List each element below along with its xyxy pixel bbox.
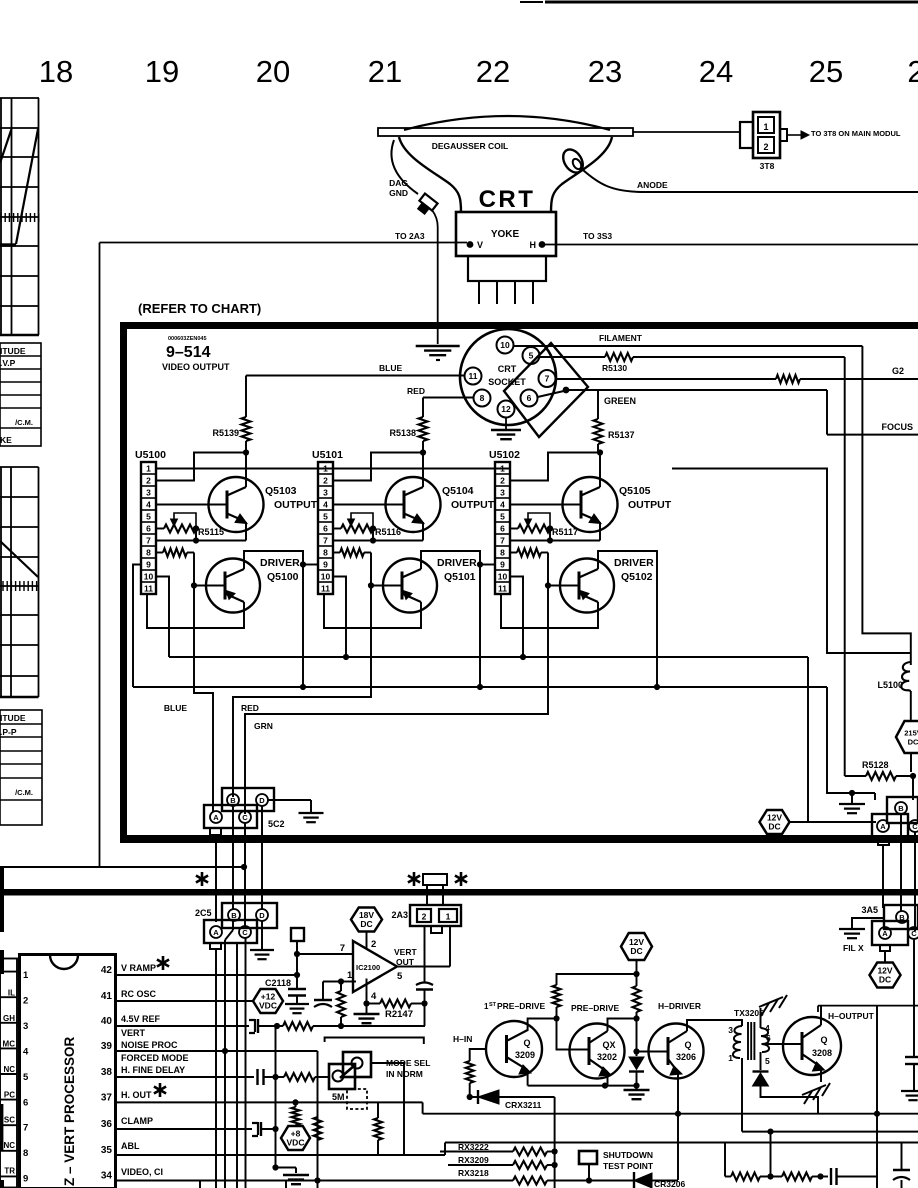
svg-text:CRT: CRT	[498, 364, 517, 374]
hexagon 12V DC module	[760, 810, 790, 834]
wire pin5 filament	[540, 356, 606, 358]
svg-text:10: 10	[498, 572, 508, 582]
wire emitter QX3202	[607, 1072, 609, 1086]
svg-text:2: 2	[146, 476, 151, 486]
switch 5M lower contact	[329, 1064, 355, 1089]
hexagon 12V DC 3A5	[870, 963, 901, 988]
svg-text:DRIVER: DRIVER	[260, 557, 300, 569]
svg-text:3A5: 3A5	[861, 905, 878, 915]
chart table 2	[0, 710, 42, 825]
svg-text:OUTPUT: OUTPUT	[628, 499, 672, 511]
svg-text:R5139: R5139	[212, 428, 239, 438]
wire pin 38 FORCED MODE	[116, 1076, 255, 1078]
svg-text:5: 5	[500, 512, 505, 522]
wire test point	[588, 1164, 590, 1181]
svg-text:GH: GH	[3, 1014, 15, 1023]
wire 3A5 B ground	[852, 918, 884, 928]
resistor R5137	[597, 390, 599, 419]
wire pin9 U5100	[133, 565, 141, 688]
right network drop	[724, 1143, 726, 1177]
svg-text:DC: DC	[768, 822, 780, 832]
wire 3A5 C down	[913, 939, 915, 1056]
svg-text:4: 4	[323, 500, 328, 510]
wire emitter Q3209	[527, 1070, 529, 1086]
wire left drop to lower section	[99, 243, 101, 868]
wire filament top drop	[862, 346, 910, 665]
svg-text:KE: KE	[0, 435, 12, 445]
video output module border	[120, 322, 918, 329]
svg-text:DAG: DAG	[389, 178, 408, 188]
wire H-OUTPUT bus drop	[876, 1006, 878, 1188]
pin tail 3A5 A	[880, 945, 890, 951]
svg-text:2: 2	[500, 476, 505, 486]
node R5138 bottom	[420, 449, 426, 455]
wire pin4 U5101	[333, 504, 404, 506]
wire collector Q3208	[820, 1006, 822, 1025]
wire R2147 down	[424, 1004, 426, 1027]
svg-text:000603ZEN045: 000603ZEN045	[168, 336, 207, 342]
svg-text:8: 8	[323, 548, 328, 558]
wire pin7 emitter U5102	[510, 540, 600, 542]
svg-text:5M: 5M	[332, 1092, 345, 1102]
pin7 wire IC2100	[297, 953, 353, 955]
asterisk 2A3 right	[460, 872, 463, 886]
svg-text:TEST POINT: TEST POINT	[603, 1161, 654, 1171]
svg-text:Q5103: Q5103	[265, 485, 297, 497]
wire 2C5 D ground	[261, 921, 263, 949]
wire left edge horizontal	[0, 866, 246, 868]
switch lever	[340, 1065, 355, 1078]
svg-text:NC: NC	[3, 1065, 15, 1074]
switch 5M upper contact	[343, 1052, 371, 1077]
svg-text:4: 4	[765, 1023, 770, 1033]
wire pin 36 CLAMP	[116, 1128, 253, 1130]
svg-text:SHUTDOWN: SHUTDOWN	[603, 1150, 653, 1160]
ground right edge	[901, 1090, 918, 1092]
svg-text:5: 5	[529, 351, 534, 361]
svg-text:5: 5	[323, 512, 328, 522]
wire TO 3S3	[545, 244, 918, 246]
resistor pin8 U5101	[333, 552, 340, 554]
ground pin 12	[505, 418, 507, 430]
node green	[563, 387, 570, 394]
svg-text:39: 39	[101, 1041, 113, 1052]
wire emitter Q5100	[147, 594, 244, 628]
svg-text:L5100: L5100	[877, 680, 903, 690]
svg-text:10: 10	[500, 340, 510, 350]
wire base drop Q5100	[193, 553, 195, 586]
svg-text:(REFER TO CHART): (REFER TO CHART)	[138, 301, 261, 316]
potentiometer R5116	[333, 528, 341, 530]
hexagon 215V DC	[896, 721, 918, 753]
svg-text:9: 9	[500, 560, 505, 570]
svg-text:7: 7	[23, 1123, 28, 1134]
wire base drop Q5102	[547, 553, 549, 586]
svg-text:SOCKET: SOCKET	[488, 377, 526, 387]
node pin7 IC2100	[294, 951, 300, 957]
svg-text:2: 2	[23, 995, 28, 1006]
rail1 drop right	[807, 657, 809, 822]
waveform 2 ticks	[3, 581, 37, 591]
rail y1142	[445, 1142, 918, 1144]
ground emitter rail	[636, 1086, 638, 1089]
svg-text:4.5V REF: 4.5V REF	[121, 1014, 161, 1024]
svg-text:5: 5	[765, 1056, 770, 1066]
resistor R2147	[380, 1000, 411, 1008]
wire pin10 U5101	[333, 577, 346, 658]
svg-text:9–514: 9–514	[166, 344, 211, 361]
svg-text:FILAMENT: FILAMENT	[599, 333, 643, 343]
svg-text:1: 1	[323, 464, 328, 474]
svg-text:215V: 215V	[904, 729, 918, 738]
pin tail 5C2 A	[210, 828, 221, 835]
rail TX return	[742, 1131, 918, 1133]
svg-text:1: 1	[146, 464, 151, 474]
svg-text:C: C	[242, 813, 248, 822]
wire emitter Q5101	[324, 594, 421, 628]
svg-text:C: C	[242, 928, 248, 937]
transistor Q3208	[783, 1017, 841, 1075]
svg-text:18: 18	[39, 54, 73, 89]
op-amp IC2100	[353, 941, 397, 992]
ground at module top	[416, 345, 460, 347]
DAG GND wire	[391, 140, 418, 194]
diode CRX3211	[470, 1096, 478, 1098]
svg-text:6: 6	[323, 524, 328, 534]
svg-text:7: 7	[146, 536, 151, 546]
svg-text:.P-P: .P-P	[0, 727, 17, 737]
svg-text:RED: RED	[241, 703, 259, 713]
wire degausser to 3T8	[633, 131, 740, 133]
yoke box	[456, 212, 556, 256]
wire pin 42 V RAMP	[116, 974, 298, 976]
svg-text:6: 6	[23, 1097, 28, 1108]
waveform grid 1	[0, 98, 39, 335]
wire green	[538, 391, 567, 398]
svg-text:TO 2A3: TO 2A3	[395, 231, 425, 241]
wire pin 35 ABL	[116, 1154, 446, 1156]
svg-text:YOKE: YOKE	[491, 229, 520, 240]
svg-text:6: 6	[766, 1033, 771, 1043]
wire base drop Q5101	[370, 553, 372, 586]
svg-text:42: 42	[101, 965, 113, 976]
svg-text:H–DRIVER: H–DRIVER	[658, 1001, 701, 1011]
svg-text:5C2: 5C2	[268, 819, 285, 829]
wire green corner down	[826, 390, 828, 435]
svg-text:10: 10	[321, 572, 331, 582]
wire collector Q3206	[687, 1020, 742, 1031]
rail pin9 bus	[133, 686, 827, 688]
transistor Q3209	[486, 1021, 542, 1077]
node base Q5102	[545, 582, 551, 588]
svg-text:B: B	[230, 796, 236, 805]
svg-text:2: 2	[422, 912, 427, 922]
svg-text:7: 7	[500, 536, 505, 546]
svg-text:H–OUTPUT: H–OUTPUT	[828, 1011, 875, 1021]
resistor R5130	[605, 353, 633, 361]
wires 2A3 to op-amp	[424, 926, 426, 967]
svg-text:7: 7	[323, 536, 328, 546]
left edge marks	[0, 866, 4, 932]
svg-text:6: 6	[527, 393, 532, 403]
transistor Q3206	[649, 1024, 704, 1079]
svg-text:H. OUT: H. OUT	[121, 1090, 152, 1100]
pin4 wire IC2100	[366, 979, 368, 1004]
svg-text:1: 1	[23, 970, 29, 981]
svg-text:PRE–DRIVE: PRE–DRIVE	[497, 1001, 546, 1011]
svg-text:2C5: 2C5	[195, 908, 212, 918]
svg-text:R5117: R5117	[552, 527, 578, 537]
svg-text:3209: 3209	[515, 1050, 535, 1060]
svg-text:R5130: R5130	[602, 363, 627, 373]
pin2 wire IC2100	[366, 932, 368, 949]
wire top edge line	[545, 1, 918, 4]
svg-text:RC OSC: RC OSC	[121, 989, 157, 999]
svg-text:1: 1	[500, 464, 505, 474]
svg-text:VIDEO OUTPUT: VIDEO OUTPUT	[162, 362, 230, 372]
svg-text:21: 21	[368, 54, 402, 89]
inductor L5100	[901, 662, 911, 691]
svg-text:TO 3T8 ON MAIN MODUL: TO 3T8 ON MAIN MODUL	[811, 129, 901, 138]
svg-text:4: 4	[23, 1046, 29, 1057]
svg-text:RX3222: RX3222	[458, 1142, 489, 1152]
chart table 1	[0, 343, 41, 446]
svg-text:8: 8	[23, 1148, 28, 1159]
svg-text:3T8: 3T8	[760, 161, 775, 171]
svg-text:R5115: R5115	[198, 527, 224, 537]
svg-text:CR3206: CR3206	[654, 1179, 685, 1188]
svg-text:8: 8	[146, 548, 151, 558]
svg-text:B: B	[898, 804, 904, 813]
svg-text:Q5100: Q5100	[267, 571, 299, 583]
node base Q5101	[368, 582, 374, 588]
wire GRN drop	[245, 586, 548, 815]
svg-text:A: A	[880, 822, 886, 831]
svg-text:A: A	[213, 928, 219, 937]
svg-text:R5116: R5116	[375, 527, 401, 537]
svg-text:3: 3	[23, 1021, 28, 1032]
wire filament top	[514, 345, 863, 347]
wires module to 3A5	[882, 845, 884, 908]
svg-text:QX: QX	[602, 1040, 615, 1050]
svg-text:35: 35	[101, 1145, 113, 1156]
svg-text:1: 1	[347, 970, 353, 981]
rail H out	[423, 1113, 918, 1115]
svg-text:Q5105: Q5105	[619, 485, 651, 497]
svg-text:ST: ST	[489, 1002, 497, 1008]
label H-OUTPUT	[818, 1005, 918, 1007]
svg-text:G2: G2	[892, 366, 904, 376]
node base QX3202	[553, 1015, 559, 1021]
svg-text:DC: DC	[879, 975, 891, 985]
ground 5C2	[299, 812, 324, 814]
svg-text:CRX3211: CRX3211	[505, 1100, 542, 1110]
ground x296 bottom	[283, 1174, 309, 1176]
wire RED	[423, 397, 474, 399]
svg-text:CLAMP: CLAMP	[121, 1116, 153, 1126]
svg-text:34: 34	[101, 1171, 113, 1182]
wire to base QX3202	[557, 1019, 590, 1050]
wire emitter Q5102	[501, 594, 598, 628]
node R5139 bottom	[243, 449, 249, 455]
resistor mode divider	[314, 1117, 322, 1140]
svg-text:DEGAUSSER COIL: DEGAUSSER COIL	[432, 141, 509, 151]
wire collector Q5101	[421, 551, 480, 687]
node H-IN	[467, 1094, 473, 1100]
svg-text:1: 1	[763, 122, 768, 132]
wire 5C2 D ground	[268, 799, 311, 801]
wire collector Q5100	[244, 551, 303, 687]
svg-text:5: 5	[23, 1072, 29, 1083]
svg-text:36: 36	[101, 1119, 113, 1130]
svg-text:9: 9	[23, 1174, 28, 1185]
capacitor pin38	[256, 1069, 258, 1085]
svg-text:NC: NC	[3, 1141, 15, 1150]
wire emitter Q3208	[820, 1067, 822, 1082]
svg-text:11: 11	[498, 584, 507, 594]
spark gap diamond	[504, 343, 588, 437]
svg-text:TO 3S3: TO 3S3	[583, 231, 612, 241]
svg-text:C: C	[912, 822, 918, 831]
wire to left resistor	[557, 974, 637, 985]
wire QX3202 collector	[608, 1019, 637, 1032]
wire TX pin1	[741, 1058, 743, 1132]
wire pin1 bus right	[672, 469, 911, 654]
svg-text:Q: Q	[820, 1035, 827, 1045]
capacitor right edge	[905, 1056, 918, 1058]
svg-text:R5128: R5128	[862, 760, 889, 770]
wire TO 2A3	[100, 242, 468, 244]
svg-text:VDC: VDC	[287, 1138, 305, 1148]
socket pin 8	[474, 390, 491, 407]
svg-text:PRE–DRIVE: PRE–DRIVE	[571, 1003, 620, 1013]
transistor Q5105 output	[563, 477, 618, 532]
svg-text:C: C	[911, 929, 917, 938]
svg-text:RED: RED	[407, 386, 425, 396]
svg-text:VERT: VERT	[121, 1028, 146, 1038]
jumper bracket	[325, 1038, 424, 1045]
svg-text:Q: Q	[684, 1040, 691, 1050]
svg-text:A: A	[213, 813, 219, 822]
svg-text:11: 11	[469, 371, 478, 381]
svg-text:ITUDE: ITUDE	[0, 713, 26, 723]
wire pin10 U5100	[156, 577, 169, 658]
wire pin 39 NOISE PROC	[116, 1050, 318, 1052]
svg-text:H–IN: H–IN	[453, 1034, 472, 1044]
resistor bottom right 2	[782, 1173, 812, 1181]
potentiometer R5115	[156, 528, 164, 530]
node R5137 bottom	[597, 449, 603, 455]
svg-text:1: 1	[728, 1053, 733, 1063]
svg-text:VDC: VDC	[259, 1001, 277, 1011]
wire pin 41 RC OSC	[116, 1000, 254, 1002]
node base Q3206	[633, 1048, 639, 1054]
wire pin1 bus U5101	[333, 468, 510, 470]
pin1 wire IC2100	[341, 981, 356, 983]
svg-text:OUT: OUT	[396, 957, 415, 967]
svg-text:8: 8	[480, 393, 485, 403]
node R5128	[910, 773, 916, 779]
wire pin2 U5101	[333, 453, 423, 481]
wire emitter Q3206	[677, 1072, 679, 1180]
DAG GND connector	[415, 194, 437, 216]
svg-text:B: B	[899, 913, 905, 922]
svg-text:.V.P: .V.P	[0, 358, 16, 368]
capacitor bottom right	[830, 1168, 832, 1185]
CRT bell left outline	[399, 137, 461, 212]
pin1 capacitor	[323, 981, 341, 983]
asterisk left	[201, 872, 204, 886]
IC left pin label column	[0, 959, 17, 1188]
hexagon 18V DC	[351, 908, 382, 932]
svg-text:38: 38	[101, 1067, 113, 1078]
svg-text:3: 3	[728, 1025, 733, 1035]
svg-text:V RAMP: V RAMP	[121, 963, 156, 973]
transistor Q5101 driver	[371, 585, 402, 587]
svg-text:NOISE PROC: NOISE PROC	[121, 1040, 178, 1050]
socket pin 7	[539, 370, 556, 387]
wire TX pin6 base Q3208	[762, 1043, 802, 1045]
svg-text:BLUE: BLUE	[164, 703, 187, 713]
node collector QX3202	[633, 1015, 639, 1021]
svg-text:GND: GND	[389, 188, 408, 198]
resistor pre-drive right	[636, 974, 638, 986]
wire RED drop	[233, 586, 371, 798]
wire BLUE	[246, 375, 465, 377]
waveform 1 trace	[0, 129, 12, 163]
svg-text:3: 3	[146, 488, 151, 498]
resistor x378	[377, 1102, 379, 1118]
svg-text:VERT: VERT	[394, 947, 417, 957]
svg-text:DC: DC	[360, 919, 372, 929]
wire pin7 emitter U5101	[333, 540, 423, 542]
svg-text:RX3218: RX3218	[458, 1168, 489, 1178]
wire TX pin5 diode	[760, 1052, 762, 1070]
wire pin4 U5100	[156, 504, 227, 506]
resistor R5127	[776, 375, 800, 383]
wire pin 37 H OUT	[116, 1101, 423, 1103]
ground IC2100	[366, 1004, 368, 1014]
anode wire	[583, 170, 918, 192]
emitter rail	[528, 1085, 637, 1087]
wire TX pin3	[741, 1020, 743, 1026]
section divider bar	[0, 889, 918, 896]
svg-text:/C.M.: /C.M.	[15, 788, 33, 797]
anode cap	[559, 146, 587, 176]
asterisk 2A3 left	[413, 872, 416, 886]
svg-text:11: 11	[144, 584, 153, 594]
svg-text:Q5102: Q5102	[621, 571, 653, 583]
svg-text:U5101: U5101	[312, 449, 343, 461]
svg-text:FORCED MODE: FORCED MODE	[121, 1053, 189, 1063]
svg-text:2: 2	[371, 939, 376, 950]
wire 12V to connector A	[790, 821, 876, 823]
node base Q5100	[191, 582, 197, 588]
svg-text:IC2100: IC2100	[356, 963, 380, 972]
yoke plug body	[468, 256, 546, 281]
pin1 feedback resistor	[340, 982, 342, 992]
svg-text:R5137: R5137	[608, 430, 635, 440]
svg-text:R2147: R2147	[385, 1009, 413, 1020]
wire pin9 U5102	[480, 564, 495, 566]
svg-text:RX3209: RX3209	[458, 1155, 489, 1165]
ground FIL X	[839, 928, 865, 930]
svg-text:VIDEO, CI: VIDEO, CI	[121, 1167, 163, 1177]
svg-text:25: 25	[809, 54, 843, 89]
pin tail A	[878, 839, 889, 845]
transistor Q5104 output	[386, 477, 441, 532]
svg-text:3208: 3208	[812, 1048, 832, 1058]
